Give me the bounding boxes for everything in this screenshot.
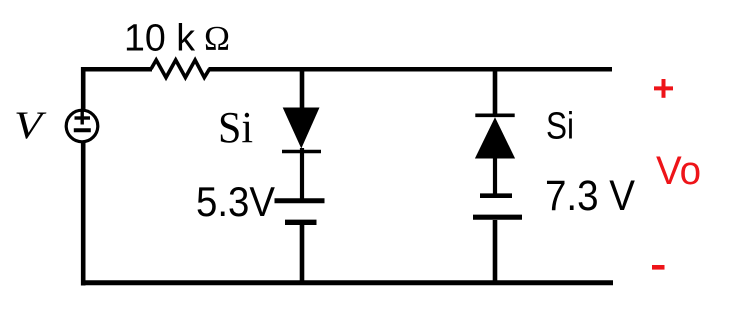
wire: diode D2 to battery B2 — [493, 158, 497, 194]
battery B2 long plate (bottom) — [473, 215, 522, 220]
svg-text:Vo: Vo — [656, 149, 701, 193]
battery B2 short plate (top) — [480, 193, 512, 198]
wire: top rail right segment (resistor to output) — [209, 67, 613, 72]
voltage source plus mark — [75, 116, 91, 119]
svg-text:5.3V: 5.3V — [196, 178, 275, 225]
svg-text:Ω: Ω — [204, 19, 230, 58]
output minus terminal mark — [652, 265, 665, 270]
svg-text:Si: Si — [546, 106, 574, 148]
battery B1 short plate (bottom) — [285, 220, 317, 225]
output plus terminal mark — [654, 86, 673, 90]
diode D2 cathode bar (top) — [475, 114, 514, 118]
diode D2 triangle (pointing up) — [475, 117, 515, 158]
wire: left rail lower (source to bottom rail) — [81, 142, 86, 286]
svg-text:10 k: 10 k — [124, 18, 196, 60]
wire: left rail upper (corner to source) — [81, 67, 86, 110]
wire: battery B1 to bottom rail — [300, 225, 305, 285]
wire: top rail left segment (source to resistor) — [81, 67, 152, 72]
svg-text:V: V — [14, 104, 47, 147]
wire: branch 2 drop from top rail to diode D2 — [493, 67, 498, 116]
diode D1 cathode bar — [282, 150, 321, 154]
wire: battery B2 to bottom rail — [493, 220, 498, 285]
wire: bottom rail — [81, 280, 613, 285]
voltage source minus mark — [74, 128, 91, 132]
resistor R1 10 kΩ zigzag — [151, 60, 210, 78]
battery B1 long plate (top) — [275, 198, 325, 203]
svg-text:Si: Si — [218, 103, 253, 152]
wire: diode D1 to battery B1 — [300, 148, 304, 199]
wire: branch 1 drop from top rail to diode D1 — [300, 67, 305, 108]
diode D1 triangle (cathode down) — [283, 108, 320, 149]
voltage source V1 circle — [66, 110, 98, 142]
svg-text:7.3 V: 7.3 V — [545, 172, 635, 220]
